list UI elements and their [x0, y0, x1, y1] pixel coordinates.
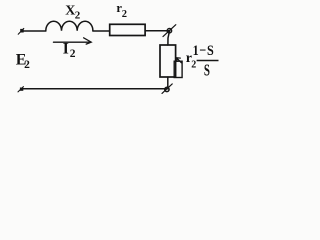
svg-text:S: S — [204, 62, 210, 80]
svg-text:2: 2 — [75, 10, 81, 22]
resistor r2 — [110, 24, 145, 35]
resistor r2(1-S)/S box — [160, 45, 176, 77]
wire corner down — [168, 31, 170, 45]
terminal mark bottom-left — [18, 87, 23, 92]
svg-text:I: I — [63, 40, 69, 57]
svg-text:2: 2 — [24, 59, 30, 71]
svg-text:2: 2 — [70, 48, 76, 60]
wire resistor bottom — [167, 77, 169, 89]
node slash top-right — [163, 25, 176, 37]
svg-text:1−S: 1−S — [193, 42, 215, 58]
wire coil to resistor — [93, 30, 110, 32]
inductor X2 — [46, 21, 93, 31]
svg-text:2: 2 — [191, 59, 196, 70]
bottom wire — [22, 88, 168, 90]
wire top-left — [22, 30, 46, 32]
terminal mark top-left — [18, 28, 24, 34]
tap arrow — [177, 58, 182, 63]
svg-text:2: 2 — [122, 9, 127, 20]
arrow I2 — [54, 41, 91, 43]
wire resistor to corner — [145, 30, 169, 32]
small tap rect — [174, 61, 182, 77]
node slash bottom — [162, 84, 172, 94]
